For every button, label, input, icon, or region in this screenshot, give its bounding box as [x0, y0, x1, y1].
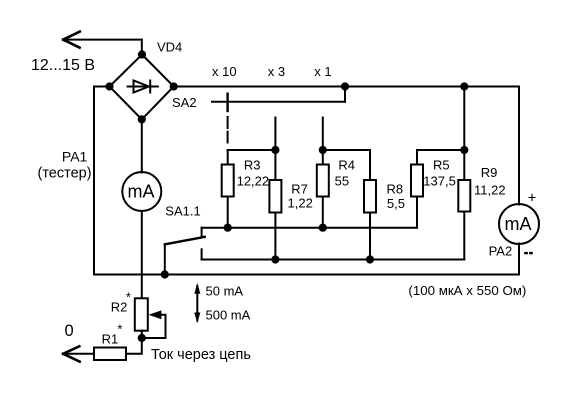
- meter PA2 circle: [499, 204, 539, 244]
- label minus of PA2: [524, 252, 533, 254]
- wire top rail to R9: [463, 87, 465, 181]
- meter PA1 circle: [122, 172, 161, 211]
- node R8 bottom: [366, 255, 374, 263]
- svg-text:x 10: x 10: [212, 64, 237, 79]
- node R4 top: [319, 146, 327, 154]
- dashed wire x10 position: [227, 117, 229, 143]
- node bridge bottom: [138, 115, 146, 123]
- node SA1.1 pole on bottom rail: [161, 270, 169, 278]
- diode symbol inside VD4: [128, 81, 158, 93]
- wire right rail upper (to PA2): [518, 87, 520, 205]
- wire PA1 to R2 (crosses bottom rail): [141, 211, 143, 298]
- output arrow 0: [63, 346, 80, 361]
- svg-text:PA1: PA1: [62, 149, 88, 165]
- svg-text:55: 55: [335, 174, 349, 189]
- current range double arrow: [194, 283, 200, 323]
- wire R5-R9 top rail: [417, 149, 464, 151]
- resistor R3: [222, 150, 234, 228]
- wire lower rail: [202, 259, 465, 261]
- wire bottom rail: [94, 274, 519, 276]
- switch SA1.1 wiper: [165, 237, 205, 244]
- wire R3 top rail: [228, 149, 276, 151]
- svg-text:11,22: 11,22: [474, 182, 506, 197]
- switch SA1.1 upper contact stub: [202, 228, 205, 237]
- svg-text:12...15 В: 12...15 В: [31, 57, 95, 74]
- svg-text:R3: R3: [244, 157, 261, 172]
- svg-text:*: *: [117, 321, 122, 336]
- node SA2 on top rail: [341, 82, 349, 90]
- node R3 bottom: [224, 224, 232, 232]
- svg-text:(100 мкА x 550 Ом): (100 мкА x 550 Ом): [408, 283, 526, 298]
- diode bridge VD4 diamond: [110, 55, 174, 120]
- resistor R7: [269, 150, 281, 260]
- wire top rail: [174, 86, 519, 88]
- switch SA2 contact tick: [226, 94, 228, 111]
- svg-text:50 mA: 50 mA: [206, 284, 244, 299]
- svg-text:x 1: x 1: [314, 64, 331, 79]
- svg-text:R8: R8: [387, 182, 404, 197]
- node R9 top: [460, 146, 468, 154]
- svg-text:PA2: PA2: [489, 244, 513, 259]
- svg-text:(тестер): (тестер): [38, 166, 92, 182]
- wire x1 contact feed: [322, 118, 324, 151]
- R2 wiper arrow: [142, 310, 166, 338]
- svg-text:mA: mA: [128, 182, 155, 202]
- supply arrow (12...15 V feed): [63, 32, 142, 48]
- svg-text:0: 0: [65, 322, 74, 340]
- node R4 bottom: [319, 224, 327, 232]
- svg-text:R7: R7: [291, 182, 308, 197]
- svg-text:5,5: 5,5: [387, 196, 405, 211]
- wire bridge left to left rail: [94, 86, 110, 88]
- resistor R9: [458, 180, 470, 260]
- svg-text:1,22: 1,22: [288, 196, 313, 211]
- svg-text:R5: R5: [433, 157, 450, 172]
- svg-text:VD4: VD4: [157, 40, 182, 55]
- resistor R8: [364, 150, 376, 260]
- node bridge top: [138, 50, 146, 58]
- svg-text:500 mA: 500 mA: [206, 308, 251, 323]
- svg-text:137,5: 137,5: [423, 173, 456, 188]
- wire R4-R8 top rail: [323, 149, 370, 151]
- svg-text:R2: R2: [111, 300, 128, 315]
- wire left rail down: [93, 87, 95, 275]
- wire bridge bottom to PA1: [141, 119, 143, 172]
- switch SA1.1 lower contact stub: [201, 249, 203, 259]
- node R2 bottom junction: [138, 334, 146, 342]
- svg-text:R4: R4: [338, 157, 355, 172]
- svg-text:+: +: [528, 189, 537, 206]
- svg-text:*: *: [126, 290, 131, 305]
- node bridge right: [170, 82, 178, 90]
- switch SA2 wire: [212, 87, 345, 102]
- svg-text:mA: mA: [505, 214, 532, 234]
- wire arrow corner to bridge top: [141, 40, 143, 55]
- wire SA1.1 pole to bottom rail: [164, 245, 166, 275]
- potentiometer R2: [135, 298, 148, 338]
- node R3/R7 top: [271, 146, 279, 154]
- resistor R5: [411, 150, 423, 228]
- node R7 bottom: [271, 255, 279, 263]
- svg-text:SA2: SA2: [172, 95, 197, 110]
- svg-text:R1: R1: [102, 332, 119, 347]
- svg-text:x 3: x 3: [268, 64, 285, 79]
- svg-text:Ток через цепь: Ток через цепь: [151, 347, 251, 363]
- wire middle rail: [202, 227, 417, 229]
- wire right rail lower (from PA2): [518, 244, 520, 275]
- wire R2 junction down to R1: [126, 338, 142, 354]
- svg-text:12,22: 12,22: [237, 174, 270, 189]
- node top rail R9 branch: [460, 82, 468, 90]
- svg-text:SA1.1: SA1.1: [165, 204, 200, 219]
- resistor R1: [63, 348, 126, 361]
- node bridge left: [105, 82, 113, 90]
- resistor R4: [317, 150, 329, 228]
- svg-text:R9: R9: [481, 165, 498, 180]
- wire x3 contact feed: [274, 118, 276, 151]
